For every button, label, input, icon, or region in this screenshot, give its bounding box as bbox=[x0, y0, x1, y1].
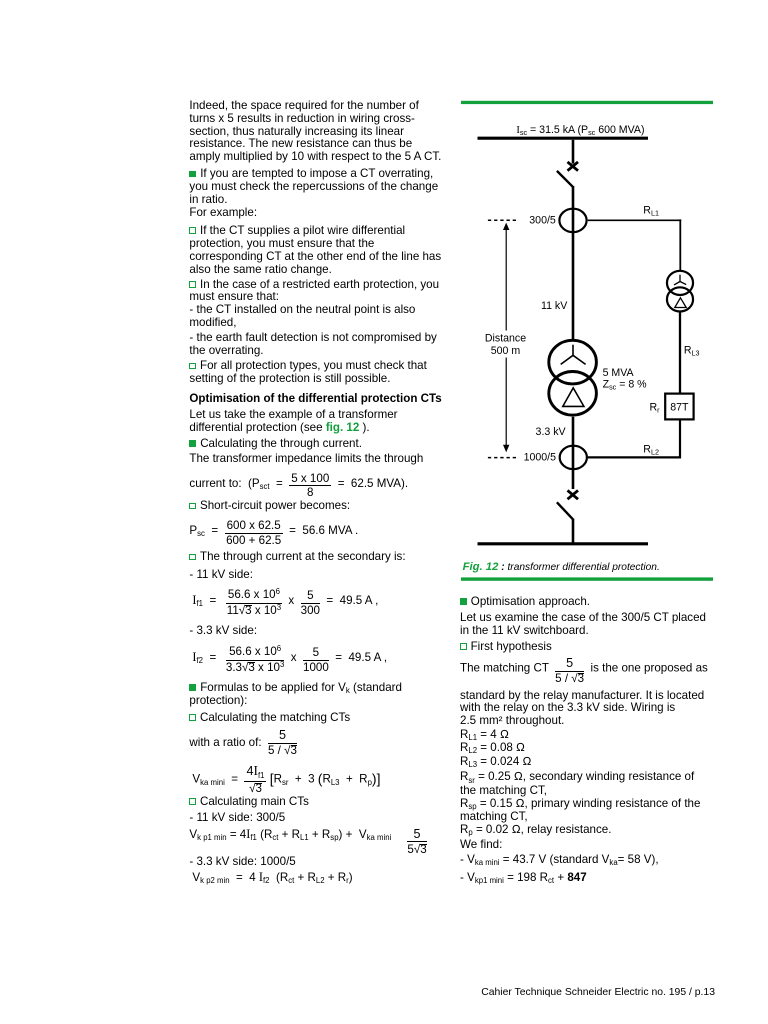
breaker X top bbox=[568, 162, 579, 171]
dashed line bottom bbox=[488, 457, 518, 459]
svg-text:Rr: Rr bbox=[649, 402, 660, 415]
svg-text:11 kV: 11 kV bbox=[541, 300, 568, 312]
formula E bbox=[189, 730, 297, 757]
formula C bbox=[192, 589, 378, 617]
Y symbol small bbox=[674, 275, 686, 285]
CT 1000/5 bbox=[560, 446, 587, 469]
formula D bbox=[192, 646, 387, 674]
busbar bottom bbox=[478, 542, 649, 545]
svg-text:3.3 kV: 3.3 kV bbox=[536, 426, 567, 438]
green bar top bbox=[461, 101, 713, 104]
wire transformer to CT2 and below bbox=[572, 417, 575, 489]
main transformer bbox=[549, 340, 597, 384]
caption bbox=[463, 561, 660, 573]
right branch down to matching trafo bbox=[679, 219, 681, 270]
svg-text:RL2: RL2 bbox=[643, 443, 659, 456]
svg-text:Zsc = 8 %: Zsc = 8 % bbox=[603, 378, 648, 391]
svg-text:RL1: RL1 bbox=[643, 205, 659, 218]
green bar bottom bbox=[461, 577, 713, 580]
main wire blade to transformer bbox=[572, 186, 575, 340]
formula G bbox=[189, 828, 426, 856]
breaker X bottom bbox=[568, 490, 579, 499]
svg-text:Distance: Distance bbox=[485, 332, 526, 344]
delta symbol big bbox=[563, 388, 584, 407]
svg-text:RL3: RL3 bbox=[684, 344, 700, 357]
svg-text:500 m: 500 m bbox=[491, 345, 521, 357]
footer bbox=[480, 987, 715, 1000]
formula F bbox=[192, 765, 380, 795]
formula A bbox=[189, 473, 408, 499]
distance arrow up bbox=[503, 223, 509, 230]
relay box 87T bbox=[665, 394, 693, 420]
switch blade top bbox=[557, 171, 573, 187]
matching CT transformer bbox=[667, 271, 693, 295]
svg-text:300/5: 300/5 bbox=[529, 214, 556, 226]
svg-text:5 MVA: 5 MVA bbox=[603, 367, 635, 379]
CT 300/5 bbox=[559, 209, 586, 232]
Y symbol big bbox=[561, 345, 586, 365]
wire 87T to corner and left to CT2 bbox=[588, 421, 680, 458]
svg-text:Isc = 31.5 kA (Psc 600 MVA): Isc = 31.5 kA (Psc 600 MVA) bbox=[516, 124, 644, 137]
distance arrow down bbox=[505, 358, 507, 447]
wire CT to right branch bbox=[588, 219, 682, 221]
svg-text:87T: 87T bbox=[670, 401, 689, 413]
wire matching trafo to 87T bbox=[679, 312, 681, 392]
dashed line top bbox=[488, 219, 518, 221]
formula B bbox=[189, 520, 358, 546]
formula R1 bbox=[460, 658, 708, 685]
delta symbol small bbox=[675, 298, 686, 308]
svg-text:1000/5: 1000/5 bbox=[524, 452, 557, 464]
wire bus to breaker bbox=[572, 140, 575, 164]
busbar top bbox=[478, 137, 649, 140]
switch blade bottom bbox=[557, 502, 573, 519]
wire blade to busbar bottom bbox=[572, 519, 575, 546]
formula H bbox=[192, 871, 352, 886]
